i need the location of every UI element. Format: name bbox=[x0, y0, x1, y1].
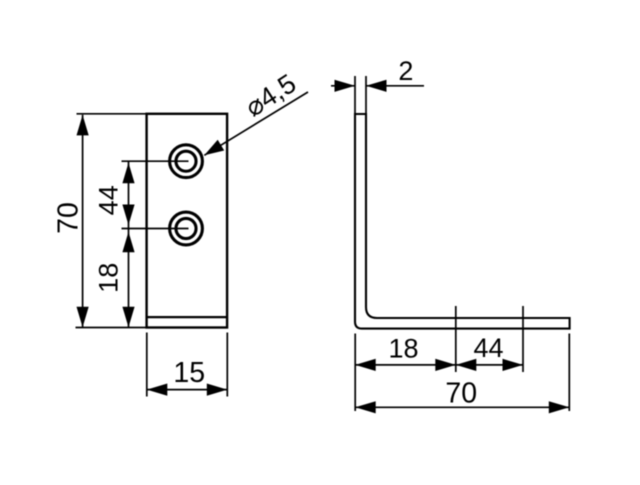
svg-text:18: 18 bbox=[93, 263, 123, 293]
svg-text:2: 2 bbox=[398, 56, 413, 86]
svg-text:70: 70 bbox=[445, 377, 477, 409]
svg-text:44: 44 bbox=[93, 185, 123, 215]
svg-text:18: 18 bbox=[388, 334, 418, 364]
svg-text:44: 44 bbox=[473, 333, 503, 363]
svg-text:70: 70 bbox=[52, 202, 84, 234]
svg-text:15: 15 bbox=[173, 357, 205, 389]
